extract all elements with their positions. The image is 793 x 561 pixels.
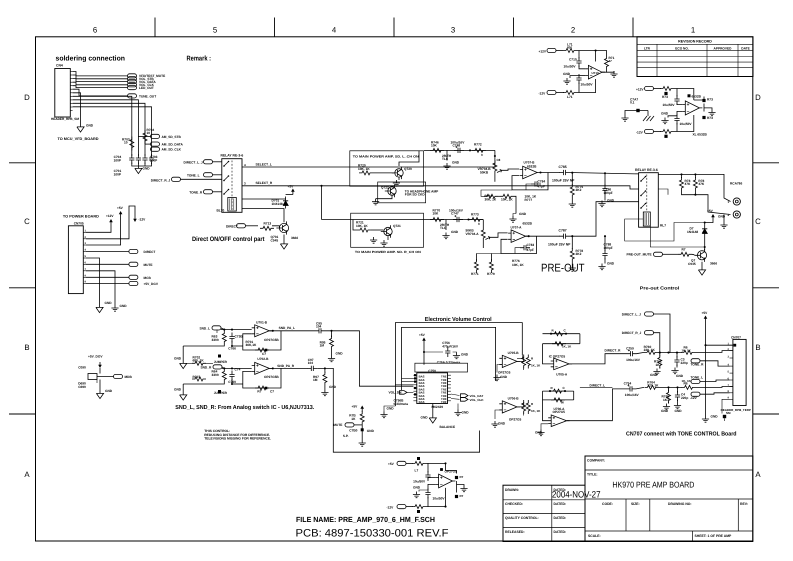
capacitor C97 104 [307,366,317,371]
svg-text:+5V: +5V [352,405,359,409]
power +5V arrow [120,214,122,217]
svg-text:3666: 3666 [291,236,298,240]
junction dots bottom block [444,462,446,464]
pad SMUTE from CN705 [86,263,129,265]
svg-text:10K, 1K: 10K, 1K [356,224,368,228]
svg-text:GND: GND [421,416,429,420]
svg-text:C760: C760 [228,380,236,384]
svg-text:BL70: BL70 [217,209,225,213]
wire U705-A out to DIRECT_R [569,354,626,364]
svg-text:MDB: MDB [125,375,133,379]
svg-text:-12V: -12V [690,396,698,400]
power +5V mute [361,409,363,412]
ground bar left bottom block [419,490,428,492]
ground bar left U711 [668,116,677,118]
svg-text:50KB: 50KB [480,170,489,174]
svg-text:LTR: LTR [644,46,651,50]
resistor R782 47K [681,174,683,178]
svg-text:5: 5 [213,26,218,35]
pad MCB from CN705 [86,276,129,278]
svg-text:B: B [755,343,760,352]
pad AM_SD_CLK [151,148,152,150]
svg-text:C7: C7 [270,390,274,394]
svg-text:1M: 1M [320,344,325,348]
svg-text:R73: R73 [707,98,713,102]
svg-text:L71: L71 [567,95,573,99]
svg-text:R713: R713 [264,222,272,226]
svg-text:47pF: 47pF [538,185,545,189]
svg-text:U706-B: U706-B [508,397,520,401]
ground mute [359,440,366,446]
svg-text:R73: R73 [707,116,713,120]
svg-text:SND_R: SND_R [201,366,213,370]
svg-text:DIRECT_R_J: DIRECT_R_J [622,331,642,335]
ground CN705 earth [86,271,115,305]
svg-text:RELEASED:: RELEASED: [505,530,525,534]
wire relay top to jacks [658,174,730,201]
svg-text:-12V: -12V [539,91,547,95]
pad AM_SD_STB [138,135,150,137]
svg-text:TLC: TLC [442,157,449,161]
ground C756 [453,353,460,359]
ground CN707 [702,416,709,422]
svg-text:AM_SD_DATA: AM_SD_DATA [162,143,184,147]
svg-text:1K, 1K: 1K, 1K [562,345,572,349]
svg-text:6532B: 6532B [523,221,533,225]
block to main power amp SD R_CH [351,213,424,247]
svg-text:Pre-out Control: Pre-out Control [640,286,680,291]
svg-text:HEADER_RPB_SM: HEADER_RPB_SM [51,117,79,121]
svg-text:TO POWER BOARD: TO POWER BOARD [63,215,99,219]
capacitor C747 100u/16V [453,217,463,222]
svg-text:TONE_R: TONE_R [189,190,203,194]
svg-text:FILE NAME: PRE_AMP_970_6_HM_F.: FILE NAME: PRE_AMP_970_6_HM_F.SCH [296,515,435,524]
wire relay coil to transistor [625,219,705,241]
ground volume left [384,406,395,412]
resistor R721 [357,228,371,232]
svg-text:1N4148: 1N4148 [687,230,698,234]
svg-text:C090: C090 [78,366,86,370]
transistor Q786 [697,251,706,260]
svg-text:C784: C784 [538,179,546,183]
capacitor C712 [676,89,678,97]
resistor feedback U706 top [551,389,565,393]
svg-text:+5V: +5V [288,185,295,189]
svg-text:Q722: Q722 [381,186,389,190]
svg-text:C: C [755,217,761,226]
power +5V for relay [292,192,294,195]
ground R765b [663,404,670,410]
wire snd l input [221,329,252,331]
feedback loop U707-B [512,173,548,190]
svg-text:DIRECT: DIRECT [144,250,156,254]
svg-text:C783: C783 [527,243,535,247]
wire relay mid to net [658,189,668,195]
capacitor C748 100u/16V [454,148,464,153]
ground C7A7 left [625,111,628,116]
resistor R707 680 [192,377,206,381]
svg-text:PRE-OUT_MUTE: PRE-OUT_MUTE [627,253,652,257]
resistor R770 10K [430,218,444,222]
svg-text:JUMPER: JUMPER [214,360,228,364]
svg-text:C945: C945 [271,238,279,242]
svg-text:SIZE:: SIZE: [631,502,640,506]
lower rail R [183,383,224,385]
feedback loop U702-B [243,368,281,388]
svg-text:DATED:: DATED: [554,516,567,520]
svg-text:HK970 PRE AMP BOARD: HK970 PRE AMP BOARD [612,480,694,490]
svg-text:C: C [24,217,30,226]
svg-text:100P: 100P [114,173,122,177]
svg-text:M62429: M62429 [432,405,444,409]
ground right bottom block [457,485,465,486]
ground CN705 triangle [86,258,100,305]
svg-text:47pF: 47pF [527,248,534,252]
svg-text:SELECT_R: SELECT_R [256,181,273,185]
svg-text:+5V: +5V [702,311,709,315]
ferrite bead L710 [563,49,577,53]
ferrite bead L713 [660,130,674,134]
ground R97 [321,390,328,396]
svg-text:R7: R7 [682,248,686,252]
resistors R771 R779 to supply [475,254,477,262]
feedback resistor R706 [255,386,269,390]
svg-text:W: W [561,401,564,405]
pad VOL_DAT [451,394,460,396]
svg-text:GND: GND [105,389,113,393]
svg-text:A: A [755,470,761,479]
svg-text:BAS: BAS [419,400,425,404]
svg-text:0.33/meta: 0.33/meta [394,402,409,406]
pad TONE_L to CN707 [691,379,700,383]
svg-text:TELEVISIONS MISSING FOR REFERE: TELEVISIONS MISSING FOR REFERENCE. [204,437,271,441]
row tick marks right [753,162,779,164]
capacitor C7A1 bottom [425,489,430,499]
svg-text:680, 1K: 680, 1K [193,359,205,363]
capacitor C74B [229,371,234,381]
svg-text:GND: GND [174,357,182,361]
connector CN4 [55,69,71,118]
svg-text:R707: R707 [193,375,201,379]
svg-text:SM: SM [726,411,731,415]
svg-text:1K, 1K: 1K, 1K [531,409,541,413]
resistor R773 [469,218,483,222]
svg-text:Direct ON/OFF control part: Direct ON/OFF control part [192,236,265,243]
svg-text:GND: GND [105,301,113,305]
ground headphone box [376,196,392,199]
svg-text:DIRECT_L_J: DIRECT_L_J [622,312,641,316]
wire U702-B output SND_PA_R [269,367,307,369]
svg-text:XL 6532B: XL 6532B [693,133,708,137]
rca jack R [733,211,740,218]
resistor R702 680 [192,361,206,365]
svg-text:220, 1K: 220, 1K [644,348,656,352]
jumper L [218,355,221,358]
svg-text:CHECKED:: CHECKED: [505,502,523,506]
svg-text:A: A [24,470,30,479]
svg-text:GND: GND [661,409,669,413]
ground in L_CH box [398,178,400,181]
svg-text:1M: 1M [313,378,318,382]
resistor pair right of U711 [694,97,704,101]
ground right of U711 [704,108,712,110]
svg-text:VR704-A: VR704-A [466,232,480,236]
svg-text:C747: C747 [451,212,459,216]
svg-text:10K, 1K: 10K, 1K [358,167,370,171]
svg-text:GND: GND [367,429,375,433]
svg-text:CN4: CN4 [56,64,63,68]
svg-text:MCB: MCB [144,276,152,280]
svg-text:GND: GND [86,124,94,128]
resistor R720 [359,171,373,175]
svg-text:C690: C690 [78,385,86,389]
resistor R775 2K2 [571,172,573,174]
svg-text:OP27G5B: OP27G5B [264,338,279,342]
wire SELECT_R [242,186,639,189]
svg-text:GND: GND [675,409,683,413]
transistor Q721 [371,229,384,231]
capacitor C704 100P [129,154,134,164]
svg-text:CODE:: CODE: [602,502,613,506]
potentiometer VR704-A 50KB [482,220,484,228]
svg-text:GND: GND [329,385,337,389]
capacitor C702 100P [136,154,141,164]
rca jack L [733,198,740,205]
svg-text:10u/50V: 10u/50V [663,103,676,107]
svg-text:SND_L: SND_L [200,327,211,331]
svg-text:1K7: 1K7 [663,398,669,402]
svg-text:TO MAIN POWER AMP. SD. L_CH ON: TO MAIN POWER AMP. SD. L_CH ON [353,155,420,159]
ground C3 [671,368,678,374]
svg-text:TONE_R: TONE_R [691,363,705,367]
svg-text:104: 104 [316,325,322,329]
svg-text:10: 10 [124,141,128,145]
wires CN4 down to filter caps [73,96,132,156]
pad DIRECT from CN705 [86,251,129,253]
svg-text:S.P.: S.P. [343,434,349,438]
svg-text:C945: C945 [688,262,696,266]
svg-text:U702-B: U702-B [257,357,269,361]
svg-text:2K2: 2K2 [576,252,582,256]
svg-text:BALANCE: BALANCE [440,425,456,429]
svg-text:GND: GND [500,375,508,379]
svg-text:L7: L7 [415,469,419,473]
capacitor C705 100P [149,154,154,164]
resistor R7B 1K [361,411,363,413]
capacitor C783 47pF [520,245,530,250]
ic left stub wires [402,377,414,379]
pad +5V_DGV from CN705 [86,283,129,285]
wire loop top B [402,327,496,390]
resistor R746 10K [430,148,444,152]
svg-text:R7: R7 [257,390,261,394]
capacitor C713 bottom [674,115,679,125]
ground C4 [674,403,681,409]
svg-text:RCA786: RCA786 [730,182,742,186]
svg-text:JUMPER: JUMPER [214,391,228,395]
svg-text:MUTE: MUTE [144,263,153,267]
block to main power amp SD L_CH [350,151,424,186]
svg-text:10K: 10K [431,144,438,148]
row tick marks left [9,162,36,164]
svg-text:GND: GND [462,411,470,415]
svg-text:1: 1 [691,26,695,35]
svg-text:DIRECT_R: DIRECT_R [605,349,622,353]
relay RL786 contacts [641,177,645,181]
svg-text:soldering connection: soldering connection [56,55,126,63]
ground C090 [99,380,101,392]
svg-text:ECO NO.: ECO NO. [675,46,689,50]
svg-text:D: D [24,93,30,102]
svg-text:C74: C74 [235,368,241,372]
junction mute [361,425,363,440]
resistor R787 [678,252,692,256]
svg-text:C748: C748 [453,144,461,148]
svg-text:47K: 47K [698,182,705,186]
svg-text:OP27G5: OP27G5 [509,418,522,422]
svg-text:GND: GND [711,415,719,419]
svg-text:0.1: 0.1 [630,101,635,105]
ferrite bead L712 [660,87,674,91]
svg-text:100u/16V: 100u/16V [625,393,640,397]
resistor R713 [260,226,274,230]
svg-text:RELAY RE-3-6: RELAY RE-3-6 [635,168,658,172]
resistor R703 10 [130,137,134,151]
diode D786 1N4148 [704,221,706,223]
wire U707-A output [526,235,560,237]
ground jacks [723,215,725,223]
wire U706-A out to DIRECT_L [567,389,626,421]
svg-text:100pF: 100pF [604,246,613,250]
svg-text:6532B: 6532B [692,95,702,99]
svg-text:U710: U710 [592,71,600,75]
svg-text:Q721: Q721 [393,224,401,228]
svg-text:6: 6 [93,26,97,35]
svg-text:TO MAIN POWER AMP. SD. R_CH ON: TO MAIN POWER AMP. SD. R_CH ON [355,250,422,254]
svg-text:47K: 47K [685,182,692,186]
wire wiper to U707-A [490,233,508,237]
resistor R710 [596,51,607,56]
svg-text:GND: GND [143,167,151,171]
chassis hatch [647,111,649,117]
svg-text:3666: 3666 [710,262,717,266]
power -12V arrow [134,216,136,219]
feedback loop U707-A [501,236,537,253]
svg-text:1K7: 1K7 [656,363,662,367]
capacitor C788 100pF [604,235,606,237]
svg-text:PCB: 4897-150330-001 REV.F: PCB: 4897-150330-001 REV.F [296,528,449,540]
transistor Q701 C945 [279,223,288,232]
ground volume IC triangle [432,404,434,416]
ferrite bead L711 [563,91,577,95]
resistor R704 10 [143,130,147,144]
wire select r to lower chain [321,186,323,220]
wire U705-B to loop [517,355,522,358]
svg-text:C7: C7 [262,352,266,356]
svg-text:+5V: +5V [419,333,426,337]
svg-text:QUALITY CONTROL:: QUALITY CONTROL: [505,516,539,520]
title block [585,456,753,542]
resistor R778 2K2 [571,235,573,237]
svg-text:U705-A: U705-A [556,372,568,376]
svg-text:36K,1K: 36K,1K [246,343,258,347]
svg-text:TONE_L: TONE_L [187,173,200,177]
svg-text:GND: GND [661,112,669,116]
resistor R97 1M [324,367,326,369]
svg-text:470uF/16V: 470uF/16V [442,344,459,348]
svg-text:C785: C785 [559,165,567,169]
svg-text:2K2: 2K2 [576,188,582,192]
svg-text:TUNE_OUT: TUNE_OUT [139,94,156,98]
svg-text:-12V: -12V [387,505,395,509]
svg-text:AM_SD_CLK: AM_SD_CLK [162,148,182,152]
wire SELECT_L [242,160,495,167]
svg-text:1N4148: 1N4148 [272,202,283,206]
resistor pair right U705-B [517,357,524,362]
svg-text:R73: R73 [662,95,668,99]
svg-text:10u/50V: 10u/50V [680,122,693,126]
wire relay coil to Q701 [242,209,284,223]
svg-text:GND: GND [451,230,459,234]
resistor R772 [472,148,486,152]
wire U707-B output [540,172,560,174]
power +12V arrow [110,222,112,225]
svg-text:DATED:: DATED: [554,502,567,506]
capacitor C786 100pF [604,172,606,174]
svg-text:SELECT_L: SELECT_L [256,162,272,166]
svg-text:+12V: +12V [636,87,644,91]
svg-text:SHEET: 1 OF PRE AMP: SHEET: 1 OF PRE AMP [695,534,733,538]
svg-text:U705-B: U705-B [508,351,520,355]
svg-text:GND: GND [413,486,421,490]
svg-text:+5V: +5V [707,209,714,213]
svg-text:CN707: CN707 [731,335,741,339]
svg-text:PRE-OUT: PRE-OUT [541,263,585,275]
ferrite bead bottom block top [412,461,426,465]
svg-text:GND: GND [718,215,726,219]
svg-text:+5V_DGV: +5V_DGV [144,282,159,286]
svg-text:10K, 1K: 10K, 1K [501,198,513,202]
svg-text:600: 600 [567,45,572,49]
wire bundle CN4 to pads [73,72,128,76]
svg-text:C73B: C73B [235,335,244,339]
power +5V volume [423,341,425,344]
relay RL786 coil [643,212,650,226]
svg-text:DRAWING NO:: DRAWING NO: [668,502,692,506]
svg-text:DIRECT_L: DIRECT_L [590,384,606,388]
opamp U7A0 [439,474,453,488]
svg-text:-12V: -12V [636,130,644,134]
ground right of U710 [602,70,607,73]
svg-text:C8: C8 [497,158,501,162]
transistor Q720 [373,172,394,174]
capacitor C784 47pF [531,181,541,186]
diode D701 1N4148 [242,197,286,200]
svg-text:SND_L, SND_R: From Analog swit: SND_L, SND_R: From Analog switch IC - U6… [175,404,314,411]
svg-text:GND: GND [535,431,543,435]
svg-text:100uF 25V NP: 100uF 25V NP [548,243,571,247]
svg-text:GND: GND [498,422,506,426]
svg-text:Electronic Volume Control: Electronic Volume Control [425,316,492,323]
lower rail L [183,345,224,347]
svg-text:DATE: DATE [741,46,749,50]
svg-text:C787: C787 [559,229,567,233]
svg-text:10u/50V: 10u/50V [433,497,446,501]
ground R95 [328,356,335,362]
capacitor C711 bottom [579,75,585,77]
svg-text:3300: 3300 [212,338,219,342]
power +5V pre-out [712,217,714,220]
